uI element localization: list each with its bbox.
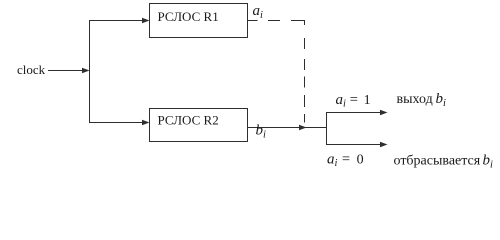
svg-text:РСЛОС R2: РСЛОС R2	[158, 113, 219, 128]
wire clock to R2	[89, 120, 150, 125]
wire clock bus vertical	[89, 21, 91, 123]
svg-text:отбрасываетсяbi: отбрасываетсяbi	[394, 153, 494, 171]
wire b_i output of R2	[248, 125, 327, 130]
block U2 РСЛОС R2	[150, 109, 248, 142]
wire output branch	[326, 110, 388, 115]
wire selector fork vertical	[326, 113, 328, 146]
wire dashed a_i select line	[247, 21, 305, 123]
svg-text:ai=0: ai=0	[327, 151, 364, 169]
svg-text:bi: bi	[256, 123, 267, 141]
wire discard branch	[326, 142, 388, 147]
svg-text:РСЛОС R1: РСЛОС R1	[158, 9, 219, 24]
svg-text:ai: ai	[253, 3, 264, 21]
wire clock arrow	[48, 68, 90, 73]
wire clock to R1	[89, 18, 150, 23]
svg-text:выходbi: выходbi	[397, 91, 447, 109]
block U1 РСЛОС R1	[150, 4, 248, 38]
svg-text:ai=1: ai=1	[336, 92, 371, 110]
svg-text:clock: clock	[17, 62, 46, 77]
